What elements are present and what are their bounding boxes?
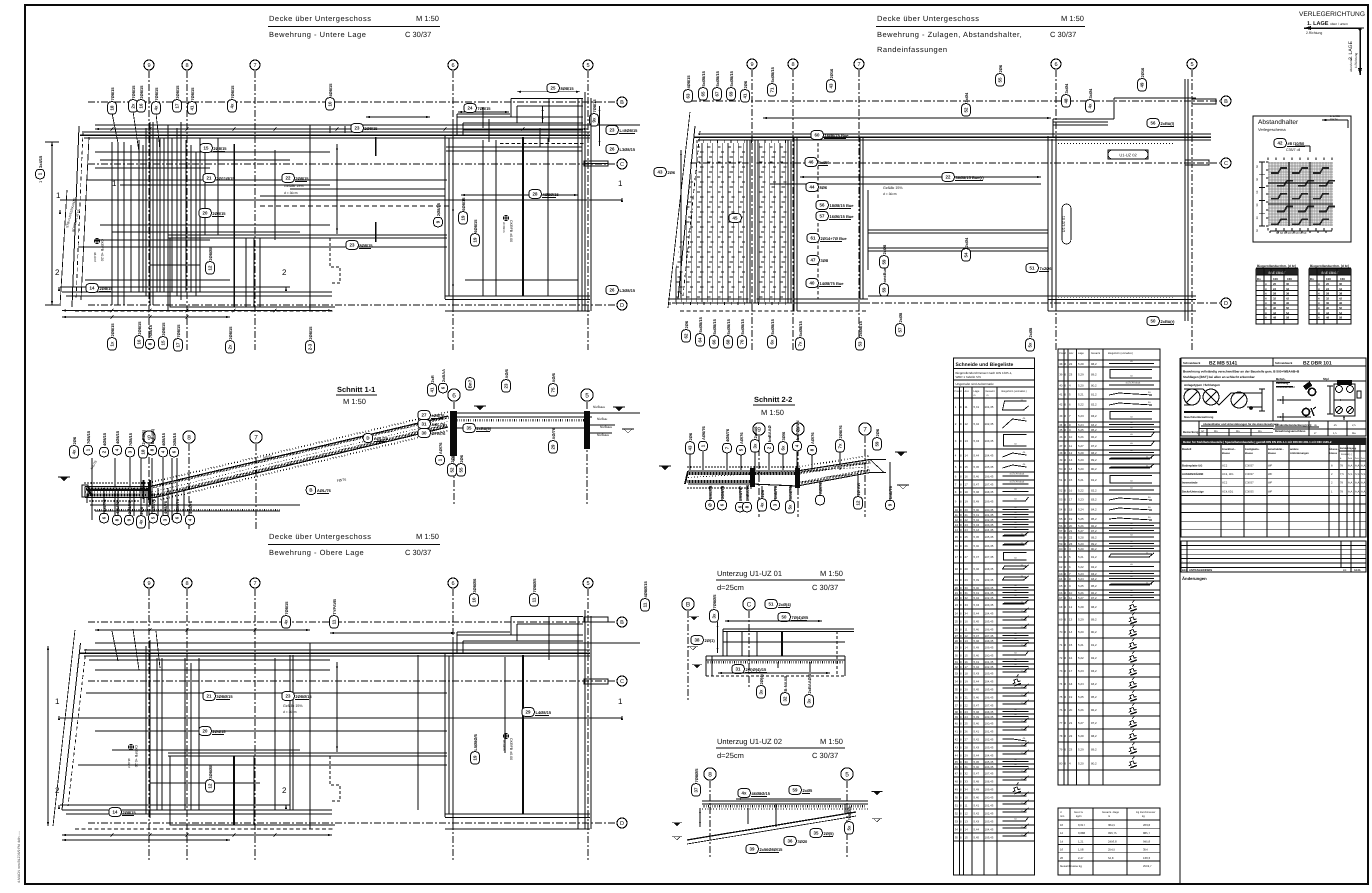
svg-text:17: 17	[175, 103, 180, 108]
svg-text:5,49: 5,49	[974, 715, 980, 719]
svg-text:12: 12	[1060, 831, 1064, 835]
svg-text:1x: 1x	[110, 341, 115, 346]
svg-text:D: D	[1224, 301, 1228, 307]
svg-text:L=8Ø8/15: L=8Ø8/15	[620, 128, 639, 133]
svg-text:2xØ8: 2xØ8	[882, 244, 887, 255]
svg-text:3x: 3x	[807, 698, 812, 703]
svg-text:4Ø8/15: 4Ø8/15	[161, 432, 166, 446]
svg-text:5,41: 5,41	[974, 591, 980, 595]
svg-text:20: 20	[955, 586, 959, 590]
svg-text:C 30/37: C 30/37	[405, 548, 431, 557]
svg-text:3Ø8: 3Ø8	[821, 258, 829, 263]
svg-text:80,2: 80,2	[1091, 630, 1097, 634]
svg-text:8: 8	[187, 434, 191, 441]
svg-text:4Ø8/15: 4Ø8/15	[328, 83, 333, 97]
svg-text:23: 23	[1069, 542, 1073, 546]
svg-text:12: 12	[1069, 451, 1073, 455]
svg-text:35: 35	[814, 831, 819, 836]
svg-text:85,2: 85,2	[1091, 584, 1097, 588]
svg-text:8Ø8/15: 8Ø8/15	[561, 86, 575, 91]
svg-text:7Ø8/15: 7Ø8/15	[128, 432, 133, 446]
svg-text:5,45: 5,45	[974, 620, 980, 624]
svg-text:XC4, XF1: XC4, XF1	[1222, 473, 1234, 476]
view2 inner flags	[654, 168, 676, 177]
svg-text:57: 57	[898, 327, 903, 332]
svg-text:108,45: 108,45	[985, 567, 994, 571]
svg-text:Schnitt 1-1: Schnitt 1-1	[337, 385, 375, 394]
view1 right panel extra verticals	[482, 140, 484, 296]
svg-text:AØ/6: AØ/6	[504, 368, 509, 378]
svg-text:81,2: 81,2	[1091, 555, 1097, 559]
view1 internal bars	[111, 142, 113, 305]
svg-text:5,42: 5,42	[974, 812, 980, 816]
view2 leaders and dims	[800, 176, 1041, 178]
svg-text:104,45: 104,45	[985, 528, 994, 532]
svg-text:8: 8	[791, 62, 794, 68]
svg-text:54: 54	[1059, 508, 1063, 512]
unterzug1 beam	[723, 628, 854, 630]
svg-text:19: 19	[965, 680, 969, 684]
svg-text:59: 59	[882, 287, 887, 292]
svg-text:AØ/76: AØ/76	[810, 432, 815, 444]
view3 right panel	[444, 653, 446, 817]
svg-text:52: 52	[1059, 489, 1063, 493]
svg-text:40: 40	[955, 722, 959, 726]
svg-text:83,2: 83,2	[1091, 669, 1097, 673]
svg-text:88,2: 88,2	[1091, 451, 1097, 455]
svg-text:16: 16	[139, 103, 144, 108]
svg-text:18: 18	[1069, 682, 1073, 686]
svg-text:15: 15	[965, 654, 969, 658]
svg-text:klasse: klasse	[1222, 452, 1230, 455]
svg-text:7Ø8/15: 7Ø8/15	[148, 324, 153, 338]
svg-text:5,46: 5,46	[974, 696, 980, 700]
svg-text:105,45: 105,45	[985, 688, 994, 692]
svg-text:7Ø8/15: 7Ø8/15	[284, 601, 289, 615]
svg-text:AØ6/76: AØ6/76	[701, 425, 706, 440]
svg-text:Bewehrung - Untere Lage: Bewehrung - Untere Lage	[269, 30, 366, 39]
svg-text:17: 17	[1069, 669, 1073, 673]
svg-text:100,45: 100,45	[985, 722, 994, 726]
svg-text:2Ø6: 2Ø6	[688, 432, 693, 440]
svg-text:60: 60	[1059, 547, 1063, 551]
svg-text:7Ø(4)Ø/5: 7Ø(4)Ø/5	[792, 615, 809, 620]
svg-text:Gesamt: Gesamt	[986, 390, 995, 393]
svg-text:41: 41	[955, 730, 959, 734]
svg-text:14: 14	[1069, 630, 1073, 634]
svg-text:2xBü(l): 2xBü(l)	[1161, 121, 1175, 126]
svg-text:47: 47	[811, 258, 816, 263]
svg-text:48: 48	[1059, 451, 1063, 455]
svg-text:26: 26	[955, 628, 959, 632]
svg-text:49: 49	[1140, 82, 1145, 87]
svg-text:3x4/15: 3x4/15	[38, 155, 43, 168]
svg-text:77: 77	[1059, 721, 1063, 725]
hook symbol 2	[1302, 408, 1309, 415]
svg-text:15: 15	[161, 340, 166, 345]
svg-text:5,49: 5,49	[974, 578, 980, 582]
schnitt 2-2 band	[688, 460, 886, 472]
svg-text:B: B	[1224, 99, 1228, 105]
svg-text:2xBü(6): 2xBü(6)	[476, 426, 491, 431]
svg-text:WBR 1 Tabelle 5/N: WBR 1 Tabelle 5/N	[956, 375, 981, 379]
view3 notch	[170, 756, 254, 825]
svg-text:2Ø6: 2Ø6	[139, 506, 144, 514]
svg-text:34: 34	[955, 680, 959, 684]
svg-text:21: 21	[207, 694, 212, 699]
svg-text:32: 32	[965, 596, 969, 600]
svg-text:5x: 5x	[847, 825, 852, 830]
svg-text:5,43: 5,43	[974, 439, 980, 443]
svg-text:5,22: 5,22	[1078, 565, 1084, 569]
svg-text:50: 50	[782, 615, 787, 620]
svg-text:Biegeform (unmaßst.): Biegeform (unmaßst.)	[1108, 352, 1133, 355]
svg-text:59: 59	[793, 788, 798, 793]
svg-text:108,45: 108,45	[985, 780, 994, 784]
U1-UZ 01 stadium	[1062, 204, 1071, 244]
svg-text:Bewehrung vollständig verschwe: Bewehrung vollständig verschweißbar an d…	[1183, 370, 1300, 374]
svg-text:109,45: 109,45	[985, 646, 994, 650]
svg-text:38: 38	[955, 710, 959, 714]
svg-text:Konkret [-]: Konkret [-]	[1341, 453, 1352, 456]
svg-text:22: 22	[955, 596, 959, 600]
svg-text:4Ø8/15: 4Ø8/15	[115, 430, 120, 444]
svg-text:5,41: 5,41	[974, 804, 980, 808]
view2 middle panel	[859, 137, 861, 299]
svg-text:105,45: 105,45	[985, 465, 994, 469]
svg-text:d = 30cm: d = 30cm	[883, 192, 897, 196]
svg-text:12: 12	[965, 422, 969, 426]
svg-text:12: 12	[965, 634, 969, 638]
svg-text:30: 30	[965, 760, 969, 764]
svg-text:5,48: 5,48	[974, 639, 980, 643]
svg-text:5,20: 5,20	[1078, 384, 1084, 388]
svg-text:20: 20	[1060, 856, 1064, 860]
svg-text:Bewehrung - Zulagen, Abstandsh: Bewehrung - Zulagen, Abstandshalter,	[877, 30, 1022, 39]
svg-text:43: 43	[658, 170, 663, 175]
svg-text:5,45: 5,45	[974, 465, 980, 469]
svg-text:18: 18	[955, 567, 959, 571]
grid circles and axes	[144, 60, 154, 70]
svg-text:22: 22	[1069, 536, 1073, 540]
svg-text:5,27: 5,27	[1078, 721, 1084, 725]
svg-text:7Ø8Ø/5: 7Ø8Ø/5	[532, 578, 537, 593]
svg-text:106,45: 106,45	[985, 628, 994, 632]
svg-text:L4Ø8/15: L4Ø8/15	[536, 710, 552, 715]
svg-text:72: 72	[1059, 656, 1063, 660]
svg-text:54: 54	[1339, 311, 1343, 315]
svg-text:16: 16	[955, 544, 959, 548]
svg-text:6: 6	[1054, 62, 1057, 68]
svg-text:109,45: 109,45	[985, 500, 994, 504]
svg-text:1: 1	[618, 179, 623, 188]
svg-text:Ø: Ø	[708, 503, 713, 507]
svg-text:5,22: 5,22	[1078, 656, 1084, 660]
svg-text:Beträchtigung: Beträchtigung	[1340, 447, 1357, 450]
schnitt 1-1 lower-left detail	[90, 504, 300, 506]
svg-text:onsBue: onsBue	[882, 267, 887, 282]
schnitt 2-2 flag stems	[689, 452, 691, 470]
schnitt 1-1 left tip dashed	[82, 485, 88, 497]
svg-text:14: 14	[1060, 839, 1064, 843]
svg-text:100,45: 100,45	[985, 586, 994, 590]
svg-text:102,45: 102,45	[985, 738, 994, 742]
svg-text:54: 54	[955, 828, 959, 832]
svg-text:12: 12	[955, 518, 959, 522]
svg-text:7Ø8/15: 7Ø8/15	[592, 99, 597, 113]
svg-text:4x: 4x	[72, 449, 77, 454]
svg-text:89,2: 89,2	[1091, 542, 1097, 546]
svg-text:18: 18	[110, 105, 115, 110]
svg-text:32: 32	[1326, 296, 1330, 300]
svg-text:C: C	[620, 679, 624, 685]
svg-text:B-NAAB: B-NAAB	[783, 676, 788, 692]
svg-text:20: 20	[203, 211, 208, 216]
svg-text:L3Ø8/15: L3Ø8/15	[620, 288, 636, 293]
svg-text:10: 10	[472, 597, 477, 602]
svg-text:A,A: A,A	[1348, 490, 1353, 493]
svg-text:2Ø6: 2Ø6	[743, 80, 748, 88]
svg-text:57: 57	[1059, 529, 1063, 533]
svg-text:7Ø8/15: 7Ø8/15	[110, 87, 115, 101]
svg-text:S,S: S,S	[1355, 473, 1360, 476]
svg-text:5xØ8/15: 5xØ8/15	[712, 318, 717, 334]
svg-text:39: 39	[1059, 373, 1063, 377]
svg-text:56: 56	[1151, 121, 1156, 126]
svg-text:B: B	[309, 488, 312, 493]
svg-text:2xØ8: 2xØ8	[1028, 327, 1033, 338]
svg-text:3Ø/6: 3Ø/6	[781, 431, 786, 440]
schnitt 1-1 flag stems	[91, 458, 93, 520]
svg-text:5,24: 5,24	[1078, 577, 1084, 581]
svg-text:36Ø8/15 Bue(r): 36Ø8/15 Bue(r)	[956, 175, 985, 180]
opening notch	[170, 238, 254, 307]
svg-text:5: 5	[586, 581, 589, 587]
svg-text:27: 27	[965, 738, 969, 742]
svg-text:11: 11	[965, 804, 968, 808]
svg-text:107,45: 107,45	[985, 772, 994, 776]
svg-text:7: 7	[254, 434, 258, 441]
svg-text:6Ø8/15: 6Ø8/15	[473, 219, 478, 233]
svg-text:BKO: BKO	[1182, 569, 1188, 572]
svg-text:4.57x70 block: 4.57x70 block	[1010, 473, 1026, 476]
svg-text:33: 33	[955, 672, 959, 676]
view2 B/C opening marks	[1192, 99, 1216, 104]
svg-text:10: 10	[328, 101, 333, 106]
svg-text:5,46: 5,46	[974, 628, 980, 632]
svg-text:83,2: 83,2	[1091, 498, 1097, 502]
svg-text:4Ø8/76: 4Ø8/76	[725, 428, 730, 442]
svg-text:2,47: 2,47	[1078, 856, 1084, 860]
svg-text:Decke über Untergeschoss: Decke über Untergeschoss	[877, 14, 979, 23]
svg-text:2Ø8/76: 2Ø8/76	[720, 485, 725, 499]
svg-text:7Ø8/15: 7Ø8/15	[477, 106, 491, 111]
svg-text:Decke über Untergeschoss: Decke über Untergeschoss	[269, 14, 371, 23]
view3 dims	[330, 632, 455, 634]
svg-text:B: B	[620, 620, 624, 626]
svg-text:17: 17	[176, 342, 181, 347]
svg-text:D: D	[620, 821, 624, 827]
svg-text:d=25cm: d=25cm	[717, 751, 744, 760]
svg-text:19: 19	[965, 500, 969, 504]
svg-text:31: 31	[965, 591, 969, 595]
svg-text:4.57x70 block: 4.57x70 block	[1126, 382, 1142, 385]
unterzug2 sloped member	[687, 812, 856, 840]
unterzug1 left side	[691, 636, 716, 645]
svg-text:4Ø8/15: 4Ø8/15	[102, 432, 107, 446]
svg-text:48-0m?: 48-0m?	[93, 252, 97, 263]
svg-text:7Ø8Ø/5: 7Ø8Ø/5	[712, 594, 717, 609]
svg-text:AØ/76: AØ/76	[739, 432, 744, 444]
svg-text:52: 52	[450, 467, 455, 472]
svg-text:5,43: 5,43	[974, 820, 980, 824]
svg-text:43: 43	[688, 445, 693, 450]
svg-text:66: 66	[1059, 591, 1063, 595]
svg-text:18: 18	[141, 449, 146, 454]
svg-text:5,44: 5,44	[974, 828, 980, 832]
svg-text:m: m	[974, 394, 976, 397]
view3 flags	[282, 601, 291, 628]
svg-text:59: 59	[882, 259, 887, 264]
svg-text:30: 30	[955, 654, 959, 658]
svg-text:1,21: 1,21	[1078, 839, 1084, 843]
svg-text:54: 54	[1286, 311, 1290, 315]
svg-text:31: 31	[736, 667, 741, 672]
svg-text:Pos: Pos	[1059, 352, 1064, 355]
svg-text:Mindestbetondeckung [cm]: Mindestbetondeckung [cm]	[1275, 423, 1311, 427]
svg-text:2Ø8/15: 2Ø8/15	[110, 323, 115, 337]
svg-text:9: 9	[147, 63, 150, 69]
svg-text:55: 55	[955, 836, 959, 840]
svg-text:5,48: 5,48	[974, 710, 980, 714]
svg-text:104,45: 104,45	[985, 680, 994, 684]
svg-text:30: 30	[422, 431, 427, 436]
svg-text:10: 10	[955, 508, 959, 512]
svg-text:304,5: 304,5	[1108, 823, 1115, 827]
bend table 1	[954, 358, 1035, 875]
svg-text:7Ø8/15: 7Ø8/15	[176, 324, 181, 338]
svg-text:101,45: 101,45	[985, 591, 994, 595]
svg-text:Druckfest.-: Druckfest.-	[1222, 448, 1236, 451]
svg-text:Innenwände: Innenwände	[1182, 482, 1198, 485]
svg-text:56: 56	[1059, 524, 1063, 528]
svg-text:41: 41	[190, 105, 195, 110]
svg-text:150: 150	[1340, 277, 1345, 281]
svg-text:14Ø8/75 Bue: 14Ø8/75 Bue	[820, 281, 845, 286]
svg-text:8Ø6: 8Ø6	[820, 185, 828, 190]
view1 slab outline	[60, 190, 67, 306]
title block	[1181, 358, 1366, 436]
svg-text:11: 11	[332, 619, 337, 624]
svg-text:35: 35	[467, 426, 472, 431]
svg-text:5,24: 5,24	[1078, 682, 1084, 686]
svg-text:4Ø8/76: 4Ø8/76	[151, 498, 156, 512]
svg-text:kg/m: kg/m	[1076, 815, 1082, 818]
svg-text:27: 27	[955, 634, 959, 638]
svg-text:10: 10	[1069, 435, 1073, 439]
svg-text:Ds: Ds	[1310, 277, 1314, 281]
svg-text:5,48: 5,48	[974, 567, 980, 571]
svg-text:Ges.Fix: Ges.Fix	[1074, 811, 1084, 814]
svg-text:130,3: 130,3	[1143, 856, 1150, 860]
svg-text:996,75: 996,75	[1108, 831, 1117, 835]
svg-text:52: 52	[964, 107, 969, 112]
svg-text:C30/37: C30/37	[1245, 473, 1254, 476]
svg-text:Gefälle 15%: Gefälle 15%	[883, 186, 903, 190]
svg-text:2x: 2x	[228, 344, 233, 349]
svg-text:20: 20	[965, 508, 969, 512]
svg-text:32: 32	[1273, 296, 1277, 300]
svg-text:5xØ8/15: 5xØ8/15	[740, 318, 745, 334]
svg-text:5xØ8/15: 5xØ8/15	[701, 70, 706, 86]
svg-text:2: 2	[55, 786, 60, 795]
svg-text:104,45: 104,45	[985, 454, 994, 458]
svg-text:9: 9	[750, 62, 753, 68]
svg-text:2Ø AW: 2Ø AW	[856, 483, 861, 496]
svg-text:46: 46	[809, 160, 814, 165]
view1 bottom flags (rotated)	[108, 323, 117, 351]
svg-text:d=30cm: d=30cm	[502, 222, 506, 233]
svg-text:2Ø6: 2Ø6	[450, 454, 455, 462]
svg-text:oben/unten: oben/unten	[1349, 57, 1353, 72]
svg-text:M 1:50: M 1:50	[761, 408, 784, 417]
svg-text:11: 11	[643, 602, 648, 607]
svg-text:106,45: 106,45	[985, 475, 994, 479]
svg-text:16: 16	[965, 660, 969, 664]
svg-text:103,45: 103,45	[985, 820, 994, 824]
svg-text:5,28: 5,28	[1078, 734, 1084, 738]
view1 top steps	[511, 98, 583, 100]
svg-text:5,44: 5,44	[974, 612, 980, 616]
svg-text:31: 31	[965, 765, 969, 769]
svg-text:36: 36	[955, 696, 959, 700]
svg-text:2Ø8Ø/8: 2Ø8Ø/8	[208, 246, 213, 261]
svg-text:5,41: 5,41	[974, 405, 980, 409]
svg-text:2xØ(4): 2xØ(4)	[779, 602, 792, 607]
svg-text:5,23: 5,23	[1078, 572, 1084, 576]
svg-text:Bemerkung: Bemerkung	[1183, 430, 1199, 434]
svg-text:Randeinfassungen: Randeinfassungen	[877, 45, 948, 54]
svg-text:2xBü(6): 2xBü(6)	[141, 429, 146, 444]
svg-text:150: 150	[1287, 277, 1292, 281]
svg-text:7Ø8/15: 7Ø8/15	[131, 85, 136, 99]
svg-text:61: 61	[811, 236, 816, 241]
svg-text:65: 65	[701, 91, 706, 96]
svg-text:4x: 4x	[154, 105, 159, 110]
svg-text:24: 24	[965, 715, 969, 719]
svg-text:21: 21	[207, 176, 212, 181]
svg-text:4Ø8Ø/15: 4Ø8Ø/15	[543, 192, 560, 197]
svg-text:5xØ8/15: 5xØ8/15	[770, 318, 775, 334]
svg-text:104,45: 104,45	[985, 612, 994, 616]
svg-text:68: 68	[726, 339, 731, 344]
svg-text:bAL/76: bAL/76	[708, 485, 713, 499]
svg-text:VERLEGERICHTUNG: VERLEGERICHTUNG	[1299, 11, 1365, 18]
svg-text:C35/7 oll: C35/7 oll	[1286, 148, 1300, 152]
svg-text:5,48: 5,48	[974, 780, 980, 784]
svg-text:22: 22	[1069, 734, 1073, 738]
svg-text:88,2: 88,2	[1091, 536, 1097, 540]
svg-text:2Ø8/15: 2Ø8/15	[364, 126, 378, 131]
svg-text:37: 37	[955, 704, 959, 708]
svg-text:23: 23	[286, 694, 291, 699]
view1 right panel	[444, 135, 446, 299]
svg-text:17: 17	[1069, 498, 1073, 502]
svg-text:4Ø8/76: 4Ø8/76	[163, 500, 168, 514]
svg-text:45: 45	[733, 216, 738, 221]
svg-text:28: 28	[965, 746, 969, 750]
svg-text:C30/35: C30/35	[1245, 490, 1254, 493]
